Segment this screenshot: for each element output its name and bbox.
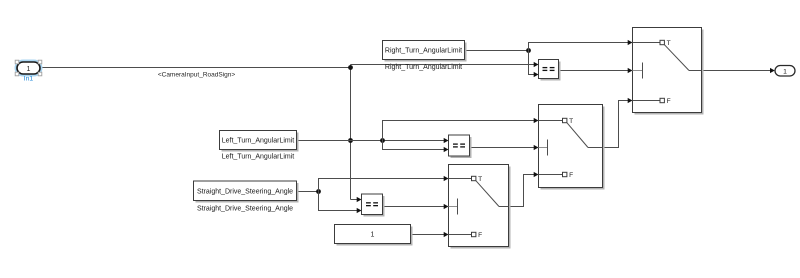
- svg-text:F: F: [667, 98, 671, 105]
- svg-text:T: T: [667, 40, 671, 47]
- svg-text:1: 1: [27, 66, 31, 73]
- svg-text:1: 1: [371, 232, 375, 239]
- svg-text:In1: In1: [24, 76, 34, 83]
- svg-text:T: T: [569, 118, 573, 125]
- svg-text:Left_Turn_AngularLimit: Left_Turn_AngularLimit: [222, 154, 295, 161]
- svg-text:1: 1: [783, 68, 787, 75]
- svg-text:T: T: [478, 176, 482, 183]
- svg-text:Right_Turn_AngularLimit: Right_Turn_AngularLimit: [385, 48, 462, 55]
- svg-text:Right_Turn_AngularLimit: Right_Turn_AngularLimit: [385, 64, 462, 71]
- svg-text:Straight_Drive_Steering_Angle: Straight_Drive_Steering_Angle: [197, 188, 293, 195]
- svg-text:Straight_Drive_Steering_Angle: Straight_Drive_Steering_Angle: [197, 206, 293, 213]
- svg-text:<CameraInput_RoadSign>: <CameraInput_RoadSign>: [158, 71, 236, 78]
- svg-text:F: F: [478, 232, 482, 239]
- svg-text:Left_Turn_AngularLimit: Left_Turn_AngularLimit: [222, 138, 295, 145]
- svg-text:F: F: [569, 172, 573, 179]
